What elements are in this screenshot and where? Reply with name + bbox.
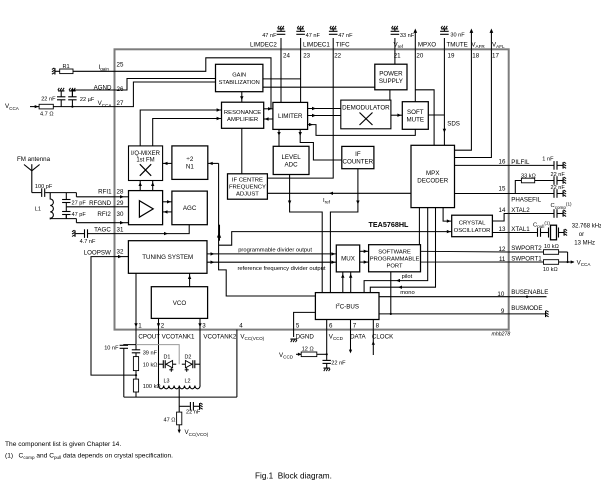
wire 22nF branch — [179, 405, 190, 407]
svg-text:D2: D2 — [185, 355, 192, 361]
svg-text:13 MHz: 13 MHz — [574, 240, 595, 246]
wire gain stab to resonance amplifier — [241, 92, 243, 103]
svg-text:27 pF: 27 pF — [72, 200, 87, 206]
svg-text:4.7 nF: 4.7 nF — [80, 239, 96, 245]
wire RFGND pin 29 — [66, 206, 114, 208]
svg-text:15: 15 — [499, 185, 506, 192]
ground at Ccomp — [563, 210, 566, 217]
block AGC — [172, 191, 207, 225]
capacitor 39nF — [132, 345, 140, 357]
wire reference into N1 — [208, 162, 219, 164]
svg-text:DGND: DGND — [296, 333, 315, 340]
svg-text:10 kΩ: 10 kΩ — [544, 244, 559, 250]
wire demodulator to soft mute — [391, 114, 402, 116]
svg-text:22 nF: 22 nF — [551, 172, 566, 178]
svg-text:2: 2 — [161, 322, 165, 329]
resistor 10 kOhm — [133, 357, 138, 371]
junction dot SWPORT pullups — [567, 261, 569, 263]
wire gain stab right to power supply — [263, 86, 375, 88]
svg-text:39 nF: 39 nF — [143, 351, 158, 357]
svg-text:Igain: Igain — [98, 64, 109, 72]
svg-text:47 pF: 47 pF — [72, 212, 87, 218]
resistor 4.7 Ohm — [39, 104, 53, 109]
varactor diode D2 — [182, 360, 195, 372]
svg-text:28: 28 — [117, 189, 124, 196]
svg-text:XTAL2: XTAL2 — [511, 207, 530, 214]
svg-text:I2C-BUS: I2C-BUS — [335, 302, 359, 310]
svg-text:Cpull(1): Cpull(1) — [533, 221, 550, 229]
svg-text:30 nF: 30 nF — [450, 33, 465, 39]
capacitor 100pF — [42, 188, 45, 197]
block VCO — [151, 287, 207, 319]
svg-text:BUSMODE: BUSMODE — [511, 305, 542, 312]
wire I2C to MUX select left — [342, 272, 344, 293]
wire TAGC pin31 to AGC — [115, 225, 190, 234]
wire reference frequency divider output — [207, 261, 336, 263]
wire CPOUT pin1 from tuning — [135, 273, 137, 329]
ground at 1nF — [563, 162, 566, 169]
svg-text:ADJUST: ADJUST — [236, 192, 259, 198]
ground above C-LIMDEC1 — [297, 26, 304, 29]
capacitor Cpull — [538, 228, 541, 237]
wire varactor row — [159, 363, 164, 365]
capacitor 27pF — [62, 193, 70, 207]
svg-text:programmable divider output: programmable divider output — [238, 248, 312, 254]
wire VCOTANK2 pin 3 tank right — [199, 330, 201, 386]
svg-text:7: 7 — [353, 322, 357, 329]
ground above 22uF cap — [69, 88, 76, 91]
wire RF amp to AGC upper — [163, 201, 172, 203]
wire resonance amp to IF centre adjust — [241, 128, 243, 174]
ground above C-TIFC — [330, 26, 337, 29]
block LEVEL ADC — [273, 146, 309, 174]
svg-text:SUPPLY: SUPPLY — [379, 78, 403, 85]
ground above C-LIMDEC2 — [278, 26, 285, 29]
svg-text:SOFTWARE: SOFTWARE — [378, 250, 411, 256]
svg-text:5: 5 — [296, 322, 300, 329]
wire CLOCK pin 8 — [372, 320, 374, 330]
svg-text:MUTE: MUTE — [407, 116, 425, 123]
demodulator mixer X symbol — [360, 113, 373, 126]
svg-text:FM antenna: FM antenna — [17, 156, 51, 163]
svg-text:1st FM: 1st FM — [136, 158, 154, 164]
wire LOOPSW pin 32 external loop — [91, 257, 136, 376]
wire BUSMODE pin 9 — [509, 313, 545, 315]
wire VAFL net — [455, 49, 492, 157]
wire RF amp to IQ mixer right — [152, 181, 154, 191]
FM antenna symbol — [24, 164, 40, 192]
svg-text:L3: L3 — [164, 378, 170, 384]
svg-text:LOOPSW: LOOPSW — [84, 249, 111, 256]
wire antenna to 100pF — [32, 192, 41, 194]
svg-text:÷2: ÷2 — [186, 156, 193, 163]
svg-text:32: 32 — [117, 249, 124, 256]
block IF CENTRE FREQUENCY ADJUST — [228, 174, 268, 199]
wire tank centre tap — [178, 388, 180, 412]
resistor 47 Ohm — [177, 412, 182, 425]
svg-text:22 nF: 22 nF — [331, 361, 346, 367]
wire IQ mixer outputs to resonance amp lower — [153, 119, 222, 146]
svg-text:AGND: AGND — [94, 84, 112, 91]
svg-text:25: 25 — [117, 62, 124, 69]
wire limiter bottom to LEVEL ADC — [278, 129, 280, 146]
svg-text:L1: L1 — [35, 206, 41, 212]
wire MPX mono line — [370, 208, 435, 293]
svg-text:VCCA: VCCA — [5, 103, 20, 111]
block RF amplifier — [129, 191, 163, 225]
capacitor 30nF at pin 19 TMUTE — [440, 29, 449, 50]
svg-text:22: 22 — [334, 53, 341, 60]
svg-text:VCO: VCO — [173, 300, 187, 307]
wire bottom rail to VCC(VCO) pin 4 — [124, 396, 237, 398]
ground above C-TMUTE — [441, 26, 448, 29]
svg-text:VCOTANK2: VCOTANK2 — [203, 333, 236, 340]
block IF COUNTER — [342, 146, 374, 168]
wire IF counter output down — [330, 169, 358, 293]
wire VCCD feed — [296, 353, 301, 355]
wire LEVEL ADC output down — [290, 175, 323, 293]
wire IQ mixer outputs to resonance amp upper — [140, 110, 221, 146]
svg-text:32.768 kHz: 32.768 kHz — [572, 223, 601, 229]
wire MPX to software port — [418, 208, 420, 245]
svg-text:VCCD: VCCD — [329, 333, 344, 341]
junction dot VCCD — [326, 353, 328, 355]
block LIMITER — [273, 102, 308, 129]
ground at 22nF vco — [200, 403, 203, 410]
svg-text:10 nF: 10 nF — [104, 345, 119, 351]
svg-text:STABILIZATION: STABILIZATION — [219, 80, 260, 86]
block DEMODULATOR — [341, 100, 391, 129]
wire VCCD pin 6 — [326, 320, 328, 330]
svg-text:1: 1 — [138, 322, 142, 329]
wire RF amp to IQ mixer left — [139, 181, 141, 191]
svg-text:N1: N1 — [186, 164, 194, 171]
capacitor 47nF at pin 23 LIMDEC1 — [296, 29, 305, 50]
svg-text:13: 13 — [499, 226, 506, 233]
wire XTAL1 inside — [492, 232, 508, 234]
wire MPX to crystal osc — [443, 208, 452, 222]
svg-text:24: 24 — [283, 53, 290, 60]
resistor 12 Ohm — [301, 352, 317, 357]
capacitor 22nF upper — [554, 176, 557, 185]
wire VCOTANK1 pin 2 tank left — [158, 330, 160, 386]
wire pin23 LIMDEC1 to limiter top — [300, 49, 302, 102]
svg-text:18: 18 — [472, 53, 479, 60]
svg-text:reference frequency divider ou: reference frequency divider output — [238, 266, 326, 272]
wire VAFL pin 17 output with up arrow — [490, 29, 494, 50]
svg-text:22 µF: 22 µF — [80, 97, 95, 103]
svg-text:33 nF: 33 nF — [400, 33, 415, 39]
wire XTAL1 pin 13 — [509, 232, 537, 234]
wire VAFR net — [455, 49, 472, 150]
wire pin24 LIMDEC2 to limiter top — [280, 49, 282, 102]
svg-text:VAFL: VAFL — [492, 42, 505, 50]
wire 100k to bottom rail — [135, 392, 137, 397]
svg-text:26: 26 — [117, 86, 124, 93]
wire PILFIL pin 16 — [455, 164, 554, 166]
capacitor 10nF — [120, 345, 128, 348]
svg-text:PHASEFIL: PHASEFIL — [511, 197, 541, 204]
wire AGND pin 26 external — [72, 89, 114, 91]
svg-text:RESONANCE: RESONANCE — [224, 110, 261, 116]
ground above C-Vref — [392, 26, 399, 29]
wire TAGC pin 31 — [88, 233, 115, 235]
wire VCO to VCOTANK2 pin 3 — [199, 318, 201, 329]
ground at R1 — [52, 68, 55, 75]
ground at 22nF upper — [563, 177, 566, 184]
svg-text:RFI1: RFI1 — [98, 189, 112, 196]
svg-text:4: 4 — [239, 322, 243, 329]
svg-text:22 nF: 22 nF — [41, 97, 56, 103]
inductors L3 L2 coil row — [159, 386, 201, 389]
capacitor 47nF at pin 24 LIMDEC2 — [277, 29, 286, 50]
wire Igain pin 25 external — [56, 70, 60, 72]
capacitor 47pF — [62, 207, 70, 219]
wire limiter to demodulator lower — [308, 115, 341, 117]
wire VCO to VCOTANK1 pin 2 — [158, 318, 160, 329]
svg-text:RFGND: RFGND — [89, 200, 112, 207]
ground at BUSMODE — [546, 311, 549, 318]
svg-text:SDS: SDS — [447, 121, 460, 128]
wire VCCA net pin27 to gain stabilization — [115, 82, 216, 107]
svg-text:12 Ω: 12 Ω — [302, 347, 314, 353]
svg-text:30: 30 — [117, 211, 124, 218]
svg-text:ADC: ADC — [285, 161, 299, 168]
svg-text:100 pF: 100 pF — [35, 184, 53, 190]
wire pin21 Vref to power supply — [394, 49, 396, 64]
svg-text:TAGC: TAGC — [94, 227, 111, 234]
svg-text:IF CENTRE: IF CENTRE — [232, 178, 263, 184]
svg-text:VCCA: VCCA — [98, 100, 113, 108]
wire TMUTE net — [443, 49, 445, 145]
wire MPXO net soft mute top — [414, 49, 416, 101]
junction dot BUSENABLE — [526, 296, 528, 298]
wire PHASEFIL pin 15 — [455, 193, 554, 195]
wire Iref line — [267, 192, 411, 194]
block IQ MIXER 1st FM — [129, 146, 163, 181]
svg-text:17: 17 — [492, 53, 499, 60]
svg-text:(1) Ccomp and Cpull data dep: (1) Ccomp and Cpull data depends on crys… — [5, 453, 173, 461]
svg-text:1 nF: 1 nF — [542, 156, 554, 162]
svg-text:or: or — [579, 232, 584, 238]
svg-text:mhb278: mhb278 — [492, 332, 511, 338]
wire BUSENABLE pin 10 — [509, 296, 547, 298]
wire gain stab right to pin23 — [263, 78, 301, 80]
wire I2C to MUX select right — [350, 272, 352, 293]
svg-text:16: 16 — [499, 159, 506, 166]
wire tuning agc reference — [219, 225, 221, 241]
capacitor 4.7nF — [76, 233, 85, 235]
svg-text:MPXO: MPXO — [418, 42, 436, 49]
capacitor 1nF — [554, 161, 557, 170]
svg-text:29: 29 — [117, 200, 124, 207]
svg-text:VCCA: VCCA — [577, 259, 592, 267]
wire limiter to soft mute level — [308, 125, 416, 136]
wire AGC to RF amp lower — [163, 211, 172, 213]
capacitor 47nF at pin 22 TIFC — [329, 29, 338, 50]
svg-text:POWER: POWER — [379, 71, 403, 78]
wire AGND net pin26 to gain stabilization — [115, 79, 216, 91]
wire RFI1 node A rail — [45, 192, 76, 194]
svg-text:FREQUENCY: FREQUENCY — [229, 185, 266, 191]
svg-text:4.7 Ω: 4.7 Ω — [40, 112, 54, 118]
junction SPP busmode — [390, 313, 392, 315]
svg-text:CPOUT: CPOUT — [138, 333, 160, 340]
svg-text:mono: mono — [400, 290, 415, 296]
wire MUX to software programmable port — [360, 250, 369, 252]
svg-text:VCCD: VCCD — [279, 352, 294, 360]
block MPX DECODER — [411, 145, 455, 207]
wire TIFC net pin22 — [267, 49, 333, 178]
wire VCO to tuning system — [189, 273, 191, 286]
svg-text:LEVEL: LEVEL — [281, 154, 301, 161]
wire MPXO pin 20 output with up arrow — [413, 29, 417, 50]
ground below 22nF vccd — [324, 368, 331, 371]
wire SPP to BUSMODE — [390, 272, 392, 314]
svg-text:33 kΩ: 33 kΩ — [521, 174, 536, 180]
svg-text:TEA5768HL: TEA5768HL — [369, 220, 410, 229]
wire VAFR pin 18 output with up arrow — [470, 29, 474, 50]
capacitor 22uF (VCCA decoupling) — [68, 90, 76, 107]
wire SWPORT1 inside — [421, 261, 509, 263]
svg-text:OSCILLATOR: OSCILLATOR — [454, 228, 491, 234]
svg-text:SOFT: SOFT — [407, 109, 424, 116]
arrow to VCCA right — [571, 260, 575, 263]
ground DGND — [290, 339, 297, 342]
block CRYSTAL OSCILLATOR — [452, 215, 493, 237]
wire LOOPSW into tuning — [115, 256, 129, 258]
wire limiter bottom to IF counter — [300, 129, 342, 160]
svg-text:DECODER: DECODER — [417, 177, 448, 184]
wire 47R to VCC(VCO) arrow — [178, 425, 180, 432]
wire MPX decoder up to MPXO branch — [415, 90, 434, 146]
wire limiter to demodulator upper — [308, 108, 341, 110]
block MUX — [336, 245, 359, 272]
wire RFI2 pin 30 — [76, 222, 114, 224]
svg-text:PILFIL: PILFIL — [511, 159, 530, 166]
arrow VCCA into wire — [35, 105, 39, 108]
wire MPX pilot line — [364, 208, 428, 293]
capacitor 22nF vco — [190, 402, 193, 411]
svg-text:VCOTANK1: VCOTANK1 — [162, 333, 195, 340]
capacitor 22nF (VCCA decoupling) — [57, 92, 65, 107]
IQ mixer X symbol — [140, 164, 151, 176]
resistor 10k upper — [544, 250, 559, 255]
wire XTAL2 inside — [492, 214, 508, 222]
svg-text:CRYSTAL: CRYSTAL — [459, 221, 486, 227]
svg-text:RFI2: RFI2 — [97, 211, 111, 218]
svg-text:47 Ω: 47 Ω — [164, 418, 176, 424]
block GAIN STABILIZATION — [216, 64, 263, 91]
svg-text:100 kΩ: 100 kΩ — [143, 384, 161, 390]
svg-text:47 nF: 47 nF — [262, 33, 277, 39]
svg-text:22 nF: 22 nF — [551, 185, 566, 191]
svg-text:BUSENABLE: BUSENABLE — [511, 289, 548, 296]
wire crystal reference net — [219, 163, 316, 296]
wire N1 to IQ mixer — [163, 162, 172, 164]
junction dot 22uF-AGND — [71, 89, 73, 91]
svg-text:23: 23 — [303, 53, 310, 60]
svg-text:pilot: pilot — [402, 274, 413, 280]
svg-text:10 kΩ: 10 kΩ — [543, 267, 558, 273]
svg-text:31: 31 — [117, 227, 124, 234]
svg-text:SWPORT2: SWPORT2 — [511, 245, 542, 252]
svg-text:47 nF: 47 nF — [338, 33, 353, 39]
wire crystal osc branch — [219, 232, 452, 246]
svg-text:8: 8 — [376, 322, 380, 329]
ground at crystal — [564, 229, 567, 236]
crystal symbol — [549, 225, 564, 240]
capacitor 33nF at pin 21 Vref — [391, 29, 400, 50]
svg-text:20: 20 — [416, 53, 423, 60]
svg-text:SWPORT1: SWPORT1 — [511, 255, 542, 262]
block TUNING SYSTEM — [128, 241, 207, 274]
block RESONANCE AMPLIFIER — [222, 102, 264, 128]
capacitor 22nF lower — [554, 189, 557, 198]
wire resonance amp to limiter — [264, 108, 273, 110]
svg-text:R1: R1 — [63, 64, 70, 70]
wire Igain net pin25 to limiter — [115, 58, 272, 109]
svg-text:XTAL1: XTAL1 — [511, 226, 530, 233]
svg-text:6: 6 — [329, 322, 333, 329]
wire SWPORT1 pin 11 — [509, 261, 544, 263]
svg-text:47 nF: 47 nF — [306, 33, 321, 39]
chip outline TEA5768HL — [115, 49, 509, 329]
svg-text:19: 19 — [448, 53, 455, 60]
svg-text:TMUTE: TMUTE — [447, 42, 468, 49]
wire SWPORT2 inside — [421, 250, 509, 253]
wire RFI2 node B rail — [50, 218, 76, 220]
junction dot LOOPSW tap — [135, 374, 137, 376]
wire CPOUT pin 1 external — [135, 330, 137, 345]
svg-text:Ccomp(1): Ccomp(1) — [551, 201, 573, 209]
block POWER SUPPLY — [375, 64, 407, 90]
svg-text:Vref: Vref — [394, 42, 404, 50]
wire DGND pin 5 — [294, 312, 316, 337]
svg-text:MPX: MPX — [426, 170, 439, 177]
RF amplifier triangle — [139, 201, 153, 218]
wire programmable divider output — [207, 253, 336, 255]
varactor diode D1 — [163, 360, 176, 372]
svg-text:LIMDEC2: LIMDEC2 — [250, 42, 277, 49]
svg-text:Iref: Iref — [323, 198, 331, 205]
wire soft mute to TMUTE line — [428, 114, 444, 116]
svg-text:10 kΩ: 10 kΩ — [143, 362, 158, 368]
svg-text:VCC(VCO): VCC(VCO) — [185, 429, 209, 437]
block divide-by-2 N1 — [172, 146, 208, 180]
svg-text:Fig.1 Block diagram.: Fig.1 Block diagram. — [255, 471, 332, 480]
resistor R1 — [60, 69, 73, 74]
svg-text:AMPLIFIER: AMPLIFIER — [227, 117, 258, 123]
wire L1 bottom rail — [49, 218, 51, 221]
svg-text:DEMODULATOR: DEMODULATOR — [342, 105, 390, 112]
svg-text:MUX: MUX — [341, 256, 355, 263]
ground above 22nF cap — [58, 88, 65, 91]
wire CPOUT 10nF branch — [124, 344, 136, 347]
svg-text:TIFC: TIFC — [336, 42, 350, 49]
block I2C-BUS — [315, 293, 379, 320]
svg-text:3: 3 — [202, 322, 206, 329]
capacitor 22nF vccd — [323, 354, 331, 367]
svg-text:COUNTER: COUNTER — [343, 158, 374, 165]
wire VCCA pin 27 external — [30, 106, 39, 108]
wire DATA pin 7 — [350, 320, 352, 330]
block SOFTWARE PROGRAMMABLE PORT — [369, 245, 421, 272]
svg-text:GAIN: GAIN — [232, 73, 246, 79]
svg-text:AGC: AGC — [183, 205, 197, 212]
svg-text:D1: D1 — [164, 355, 171, 361]
svg-text:I/Q-MIXER: I/Q-MIXER — [131, 151, 161, 157]
